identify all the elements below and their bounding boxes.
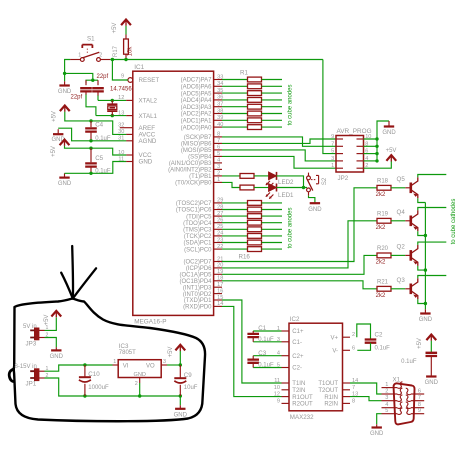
svg-text:(MOSI)PB5: (MOSI)PB5 — [181, 148, 212, 154]
svg-text:R16: R16 — [239, 253, 251, 260]
svg-text:(SCL)PC0: (SCL)PC0 — [184, 247, 212, 253]
svg-text:(OC2)PD7: (OC2)PD7 — [183, 260, 212, 266]
wire Q2 emitter to common rail — [418, 266, 426, 270]
svg-text:C3: C3 — [258, 350, 266, 357]
svg-text:RESET: RESET — [139, 77, 160, 84]
wire C5 bottom to GND pin — [65, 162, 127, 174]
svg-text:C1: C1 — [258, 325, 266, 332]
capacitor C10 1000uF — [84, 365, 86, 377]
capacitor 22pf left — [85, 80, 87, 85]
svg-text:22pf: 22pf — [97, 74, 109, 80]
svg-text:2: 2 — [99, 53, 102, 59]
voltage regulator IC3 7805T — [118, 360, 161, 378]
transistor Q2 — [409, 250, 412, 261]
svg-text:IC2: IC2 — [290, 316, 300, 323]
wire JP2 pin2 to +5V — [364, 161, 392, 168]
+5V supply at JP3 — [51, 311, 61, 317]
wire Q2 collector to cube cathodes — [418, 242, 447, 245]
resistor R18 2k2 — [377, 185, 391, 190]
svg-text:+5V: +5V — [51, 146, 57, 157]
svg-text:GND: GND — [308, 207, 322, 213]
ground below JP3 — [55, 347, 57, 350]
svg-text:GND: GND — [174, 412, 188, 418]
svg-text:R1IN: R1IN — [324, 395, 338, 401]
svg-text:1000uF: 1000uF — [88, 385, 109, 391]
svg-text:(TCK)PC2: (TCK)PC2 — [184, 234, 212, 240]
ground below transistor rail — [420, 312, 430, 314]
svg-text:VO: VO — [146, 364, 155, 370]
svg-text:IC3: IC3 — [119, 343, 129, 350]
resistor R17 10k — [125, 35, 127, 40]
emitter common rail to GND — [424, 203, 426, 310]
svg-text:Q3: Q3 — [397, 277, 406, 284]
svg-text:0.1uF: 0.1uF — [401, 359, 417, 365]
svg-text:C1+: C1+ — [292, 329, 304, 335]
svg-text:(TOSC2)PC7: (TOSC2)PC7 — [176, 201, 212, 207]
svg-text:+5V: +5V — [51, 111, 57, 122]
wire GND junction to crystal caps — [65, 73, 98, 80]
svg-text:1: 1 — [217, 177, 220, 183]
svg-text:+5V: +5V — [168, 347, 174, 358]
svg-text:GND: GND — [382, 130, 396, 136]
hand-drawn enclosure around power supply — [14, 299, 205, 422]
svg-text:C2-: C2- — [292, 366, 302, 372]
svg-text:to cube cathodes: to cube cathodes — [451, 199, 457, 245]
svg-text:+5V: +5V — [44, 315, 50, 326]
svg-text:7: 7 — [217, 138, 220, 144]
svg-text:9: 9 — [331, 134, 334, 140]
wire LED1 cathode to switch S2 — [277, 187, 308, 189]
svg-text:(ADC1)PA1: (ADC1)PA1 — [181, 119, 213, 125]
wire +5V to R17 — [125, 26, 127, 35]
wire left 22pf to XTAL1 net — [86, 95, 96, 116]
wire RESET net to JP2 pin 5 — [323, 60, 336, 154]
wire LED2 cathode down to LED1 row — [277, 176, 304, 188]
svg-text:R21: R21 — [377, 280, 389, 286]
svg-text:2k2: 2k2 — [376, 293, 386, 299]
svg-text:8: 8 — [352, 398, 355, 404]
svg-text:R1OUT: R1OUT — [292, 395, 313, 401]
wire IC3 GND pin to bottom rail — [139, 383, 141, 396]
svg-text:(SS)PB4: (SS)PB4 — [188, 155, 212, 161]
wire PD1/TXD to MAX232 T1IN — [222, 300, 282, 383]
wire JP3 pin2 to GND — [45, 338, 57, 348]
svg-text:(ICP)PD6: (ICP)PD6 — [186, 266, 212, 272]
svg-text:GND: GND — [425, 380, 439, 386]
svg-text:R17: R17 — [113, 45, 119, 57]
resistor for LED2 — [240, 174, 254, 179]
wire Q3 emitter to common rail — [418, 299, 426, 303]
wire PB4/SS to JP2 pin 1 — [222, 156, 336, 168]
level converter IC2 MAX232 — [289, 323, 343, 411]
svg-text:to cube anodes: to cube anodes — [287, 207, 293, 248]
svg-text:(T0/XCK)PB0: (T0/XCK)PB0 — [175, 181, 212, 187]
svg-text:(TDI)PC5: (TDI)PC5 — [186, 214, 212, 220]
wire to GND symbol right of JP2 — [377, 121, 389, 139]
wire S2 to GND — [309, 196, 315, 203]
svg-text:0.1uF: 0.1uF — [258, 337, 274, 343]
wire XTAL2 row — [98, 99, 126, 101]
svg-text:9: 9 — [277, 398, 280, 404]
svg-text:3: 3 — [217, 164, 220, 170]
svg-text:C9: C9 — [184, 372, 192, 379]
svg-text:2: 2 — [352, 332, 355, 338]
svg-text:7: 7 — [352, 385, 355, 391]
svg-text:Q2: Q2 — [397, 243, 406, 250]
ground for C4 — [53, 133, 63, 135]
svg-text:11: 11 — [274, 378, 280, 384]
svg-text:(AIN1/OC0)PB3: (AIN1/OC0)PB3 — [169, 161, 212, 167]
svg-text:(ADC6)PA6: (ADC6)PA6 — [181, 85, 213, 91]
svg-text:8: 8 — [217, 132, 220, 138]
svg-text:C2+: C2+ — [292, 354, 304, 360]
resistor R21 2k2 — [377, 286, 391, 291]
svg-text:2: 2 — [135, 381, 138, 387]
LED1 — [254, 187, 269, 189]
svg-text:MEGA16-P: MEGA16-P — [134, 319, 166, 326]
wire Q5 emitter to common rail — [418, 198, 426, 202]
svg-text:6: 6 — [352, 345, 355, 351]
svg-text:T2OUT: T2OUT — [318, 388, 338, 394]
svg-text:C5: C5 — [95, 155, 103, 162]
svg-text:2: 2 — [217, 171, 220, 177]
svg-text:4: 4 — [217, 158, 220, 164]
svg-text:R2OUT: R2OUT — [292, 402, 313, 408]
wire PD4 to R21 — [222, 281, 377, 289]
svg-text:17: 17 — [217, 282, 223, 288]
svg-text:(T1)PB1: (T1)PB1 — [189, 174, 212, 180]
svg-text:0.1uF: 0.1uF — [258, 363, 274, 369]
wire Q4 emitter to common rail — [418, 231, 426, 235]
decoupling capacitor 0.1uF near X1 — [426, 335, 436, 341]
wires JP2 right-side GND pins — [364, 139, 378, 161]
svg-text:2k2: 2k2 — [376, 225, 386, 231]
wire PD5 to R20 — [222, 255, 377, 274]
svg-text:(SCK)PB7: (SCK)PB7 — [184, 135, 212, 141]
svg-text:(INT1)PD3: (INT1)PD3 — [183, 285, 212, 291]
svg-text:32: 32 — [118, 123, 124, 129]
svg-text:R18: R18 — [377, 179, 389, 185]
capacitor C9 10uF — [179, 365, 181, 378]
svg-text:XTAL1: XTAL1 — [139, 113, 158, 120]
hand-drawn tail on left of enclosure — [9, 369, 14, 381]
svg-text:(MISO)PB6: (MISO)PB6 — [181, 142, 212, 148]
wire Q5 collector to cube cathodes — [418, 175, 447, 178]
svg-text:2k2: 2k2 — [376, 260, 386, 266]
svg-text:XTAL2: XTAL2 — [139, 98, 158, 105]
svg-text:7805T: 7805T — [119, 350, 136, 356]
capacitor C3 0.1uF — [253, 355, 281, 357]
svg-text:6: 6 — [418, 388, 421, 394]
svg-text:9: 9 — [121, 74, 124, 80]
svg-text:GND: GND — [139, 159, 153, 166]
wire +5V rail to AVCC — [65, 112, 126, 135]
hand-drawn antenna lines — [71, 246, 74, 299]
svg-text:(AIN0/INT2)PB2: (AIN0/INT2)PB2 — [168, 168, 212, 174]
resistor R19 2k2 — [377, 218, 391, 223]
+5V supply right of JP2 — [386, 155, 396, 161]
wire JP1 pin2 to bottom rail — [45, 378, 181, 396]
svg-text:5: 5 — [385, 408, 388, 414]
crystal Q1 14.7456 — [111, 100, 113, 104]
svg-text:JP2: JP2 — [338, 175, 349, 182]
svg-text:GND: GND — [370, 431, 384, 437]
svg-text:R20: R20 — [377, 246, 389, 252]
svg-text:(TOSC1)PC6: (TOSC1)PC6 — [176, 208, 212, 214]
svg-text:T1OUT: T1OUT — [318, 381, 338, 387]
svg-text:(OC1B)PD4: (OC1B)PD4 — [179, 279, 212, 285]
svg-text:C10: C10 — [88, 371, 100, 378]
svg-text:(SDA)PC1: (SDA)PC1 — [183, 241, 212, 247]
capacitor C1 0.1uF — [253, 330, 281, 332]
svg-text:2k2: 2k2 — [376, 192, 386, 198]
+5V supply for VCC — [60, 140, 70, 146]
wire PB5/MOSI to JP2 pin 3 — [222, 150, 336, 161]
svg-text:(INT0)PD2: (INT0)PD2 — [183, 292, 212, 298]
IC1 right-side pin stubs and pin numbers — [214, 79, 222, 81]
svg-text:(ADC7)PA7: (ADC7)PA7 — [181, 78, 213, 84]
ground below X1 — [372, 426, 382, 428]
svg-text:10uF: 10uF — [184, 385, 198, 391]
wire S1 left to GND and caps — [65, 60, 71, 74]
svg-text:22pf: 22pf — [71, 95, 83, 101]
svg-text:16: 16 — [217, 288, 223, 294]
svg-text:9: 9 — [418, 408, 421, 414]
svg-text:R2IN: R2IN — [324, 402, 338, 408]
svg-text:(ADC3)PA3: (ADC3)PA3 — [181, 105, 213, 111]
svg-text:S1: S1 — [87, 36, 95, 43]
svg-text:10: 10 — [274, 385, 280, 391]
transistor Q5 — [409, 183, 412, 194]
svg-text:14.7456: 14.7456 — [110, 87, 132, 93]
svg-text:+5V: +5V — [112, 23, 118, 34]
svg-text:R1: R1 — [240, 70, 248, 77]
wire IC3 VO to C9 and +5V — [167, 364, 180, 366]
wire X1 pin5 to GND — [377, 414, 382, 425]
svg-text:5: 5 — [217, 151, 220, 157]
+5V supply above R17 — [121, 20, 131, 26]
+5V supply for C4/AVCC — [60, 106, 70, 112]
svg-text:(TXD)PD1: (TXD)PD1 — [184, 298, 212, 304]
svg-text:GND: GND — [133, 372, 145, 378]
svg-text:V-: V- — [332, 349, 338, 355]
wire PD6 to R19 — [222, 221, 377, 268]
svg-text:+5V: +5V — [417, 338, 423, 349]
wire MAX232 T1OUT to X1 pin2 — [350, 383, 382, 394]
svg-text:(OC1A)PD5: (OC1A)PD5 — [179, 273, 212, 279]
svg-text:MAX232: MAX232 — [290, 414, 314, 421]
resistor R20 2k2 — [377, 253, 391, 258]
svg-text:3: 3 — [331, 156, 334, 162]
wire right 22pf to XTAL2 net — [97, 96, 99, 101]
svg-text:(RXD)PD0: (RXD)PD0 — [183, 305, 212, 311]
svg-text:(ADC4)PA4: (ADC4)PA4 — [181, 98, 213, 104]
svg-text:JP1: JP1 — [26, 381, 37, 388]
svg-text:LED1: LED1 — [278, 192, 294, 199]
wire PB6/MISO to JP2 pin 9 — [222, 139, 336, 143]
LED2 — [254, 175, 269, 177]
svg-text:12: 12 — [274, 392, 280, 398]
svg-text:1: 1 — [331, 163, 334, 169]
svg-text:Q4: Q4 — [397, 209, 406, 216]
connector JP2 AVR_PROG — [336, 136, 364, 173]
ground right of JP2 — [388, 121, 390, 126]
svg-text:3: 3 — [385, 395, 388, 401]
svg-text:(TMS)PC3: (TMS)PC3 — [183, 228, 212, 234]
svg-text:3: 3 — [163, 359, 166, 365]
wire junction to RESET pin — [112, 60, 128, 81]
svg-text:GND: GND — [419, 317, 433, 323]
svg-text:5: 5 — [331, 149, 334, 155]
svg-text:IC1: IC1 — [134, 64, 144, 71]
capacitor C4 0.1uF — [90, 121, 92, 127]
svg-text:1: 1 — [385, 382, 388, 388]
capacitor 22pf right — [97, 80, 99, 85]
ground below S1 — [64, 73, 66, 81]
svg-text:T2IN: T2IN — [292, 388, 305, 394]
svg-text:7: 7 — [331, 141, 334, 147]
wire C4 bottom to AGND — [58, 128, 126, 141]
transistor Q3 — [409, 284, 412, 295]
svg-text:to cube anodes: to cube anodes — [287, 84, 293, 125]
IC1 left-side pin stubs and pin numbers — [126, 99, 133, 101]
svg-text:1: 1 — [113, 359, 116, 365]
svg-text:(ADC0)PA0: (ADC0)PA0 — [181, 125, 213, 131]
svg-text:Q5: Q5 — [397, 176, 406, 183]
resistor for LED1 — [240, 185, 254, 190]
wire PD7 to R18 — [222, 188, 377, 262]
ground for C5 — [59, 177, 69, 179]
svg-text:C1-: C1- — [292, 340, 302, 346]
microcontroller IC1 MEGA16-P — [133, 71, 214, 315]
svg-text:8-15V in: 8-15V in — [15, 364, 37, 370]
wire JP1 pin1 to C10 and regulator VI — [45, 365, 113, 371]
+5V supply at regulator output — [179, 351, 181, 365]
transistor Q4 — [409, 216, 412, 227]
svg-text:7: 7 — [418, 395, 421, 401]
IC1 RESET pin 9 with inversion bubble — [128, 78, 133, 83]
wire XTAL1 row — [96, 115, 126, 117]
wire PB7/SCK to JP2 pin 7 — [222, 137, 336, 146]
svg-text:C2: C2 — [375, 331, 383, 338]
wire PB0 to LED1 resistor — [222, 182, 240, 187]
wire PB1 to LED2 resistor — [222, 175, 240, 177]
svg-text:X1: X1 — [393, 376, 401, 383]
wire S1 to R17 junction and to JP2 RESET line — [110, 59, 323, 61]
svg-text:JP3: JP3 — [26, 340, 37, 347]
svg-text:V+: V+ — [330, 335, 338, 341]
svg-text:10k: 10k — [128, 46, 134, 57]
capacitor C2 0.1uF between V+ and V- — [357, 324, 371, 339]
ground below S2 — [310, 202, 320, 204]
svg-text:GND: GND — [58, 181, 72, 187]
svg-text:C4: C4 — [95, 122, 103, 129]
svg-text:(ADC5)PA5: (ADC5)PA5 — [181, 91, 213, 97]
wire PD0/RXD to MAX232 R1OUT — [222, 306, 282, 396]
svg-text:AGND: AGND — [139, 138, 157, 145]
wire JP3 pin1 to +5V — [45, 317, 57, 330]
svg-text:2: 2 — [385, 388, 388, 394]
wire Q4 collector to cube cathodes — [418, 208, 447, 211]
svg-text:R19: R19 — [377, 212, 389, 218]
wire +5V rail to VCC pin — [65, 146, 127, 155]
svg-text:0.1uF: 0.1uF — [375, 346, 391, 352]
svg-text:T1IN: T1IN — [292, 381, 305, 387]
svg-text:LED2: LED2 — [278, 179, 294, 186]
svg-text:6: 6 — [217, 145, 220, 151]
svg-text:GND: GND — [50, 354, 64, 360]
svg-text:(TDO)PC4: (TDO)PC4 — [183, 221, 212, 227]
wire MAX232 R1IN to X1 pin3 — [350, 397, 382, 401]
svg-text:VI: VI — [123, 364, 129, 370]
capacitor C5 0.1uF — [90, 148, 92, 162]
ground at bottom rail right — [179, 396, 181, 405]
svg-text:S2: S2 — [322, 177, 328, 185]
svg-text:(ADC2)PA2: (ADC2)PA2 — [181, 112, 213, 118]
wire Q3 collector to cube cathodes — [418, 276, 447, 279]
svg-text:1: 1 — [78, 53, 81, 59]
svg-text:+5V: +5V — [386, 148, 397, 154]
